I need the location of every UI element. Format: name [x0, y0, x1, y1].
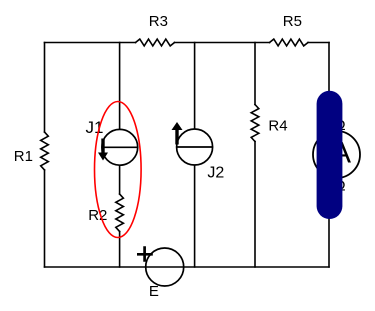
svg-text:R2: R2 — [88, 207, 107, 224]
wire branch R4 — [254, 43, 256, 268]
svg-text:R5: R5 — [283, 13, 302, 30]
resistor R2 — [116, 194, 124, 232]
current source J1 — [98, 129, 138, 165]
svg-text:E: E — [149, 283, 159, 300]
wire branch J2 — [194, 43, 196, 268]
svg-text:R4: R4 — [268, 118, 287, 135]
resistor R3 — [136, 39, 175, 46]
wire branch J1 bottom — [119, 165, 121, 267]
resistor R1 — [41, 132, 49, 170]
wire bottom — [45, 266, 330, 268]
voltage source E — [137, 246, 184, 286]
red highlight ellipse — [95, 102, 142, 238]
J2 arrow (up) — [175, 130, 178, 145]
resistor R4 — [251, 105, 259, 142]
svg-text:J2: J2 — [207, 164, 224, 181]
ammeter A — [313, 131, 360, 178]
wire right — [328, 43, 330, 268]
wire left — [44, 43, 46, 268]
current source J2 — [172, 122, 213, 165]
resistor R5 — [270, 39, 309, 46]
blue marker blob — [317, 91, 343, 219]
svg-text:R1: R1 — [14, 148, 33, 165]
wire top — [45, 42, 330, 44]
plus sign — [137, 246, 153, 262]
J1 arrow (down) — [101, 139, 104, 154]
wire branch J1 top — [119, 43, 121, 130]
svg-text:R3: R3 — [149, 13, 168, 30]
